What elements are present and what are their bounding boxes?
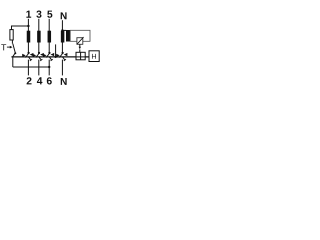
wire resistor to button xyxy=(11,40,13,44)
wire test button down xyxy=(12,57,14,67)
terminal label 5 xyxy=(47,11,52,18)
terminal label 2 xyxy=(27,77,32,84)
test button T label xyxy=(1,44,6,50)
breaker contact pole 1 xyxy=(22,52,33,61)
terminal label N bottom xyxy=(61,78,67,85)
node test-pole1 xyxy=(27,25,29,27)
terminal label 3 xyxy=(36,11,41,18)
main trip bus wire xyxy=(11,56,89,58)
wire pole5 upper xyxy=(48,19,50,53)
relay core bar xyxy=(66,30,70,42)
CT primary bar pole5 xyxy=(48,31,52,43)
wire poleN upper xyxy=(61,20,63,53)
wire pole1 lower xyxy=(27,60,29,76)
trip linkage arrow xyxy=(79,44,81,47)
release U1 square with diagonal xyxy=(77,38,83,45)
wire N to relay xyxy=(62,29,66,31)
wire poleN lower xyxy=(61,60,63,76)
terminal label 1 xyxy=(26,11,31,18)
test button actuator arrow xyxy=(7,46,10,48)
test button blade xyxy=(13,44,16,57)
terminal label N top xyxy=(61,12,67,19)
breaker contact pole 5 xyxy=(43,52,54,61)
terminal label 4 xyxy=(37,77,43,84)
wire pole3 lower xyxy=(38,60,40,76)
wire pole5 lower xyxy=(48,60,50,76)
test wire top xyxy=(12,26,29,30)
CT primary bar poleN xyxy=(61,31,65,43)
breaker contact pole 3 xyxy=(33,52,44,61)
trip coil crossed box xyxy=(76,52,85,60)
node test-pole5 xyxy=(48,66,50,68)
test return wire xyxy=(13,66,49,68)
load box H xyxy=(89,51,99,62)
wire pole1 upper xyxy=(27,19,29,53)
CT primary bar pole1 xyxy=(27,31,31,43)
resistor R test xyxy=(10,30,13,40)
wire pole3 upper xyxy=(38,19,40,53)
node secondary-bus xyxy=(54,56,56,58)
terminal label 6 xyxy=(47,77,52,84)
breaker contact pole N xyxy=(56,52,67,61)
CT secondary wire xyxy=(55,44,57,57)
node N-relay xyxy=(61,29,63,31)
relay module box xyxy=(70,30,90,41)
CT primary bar pole3 xyxy=(37,31,41,43)
